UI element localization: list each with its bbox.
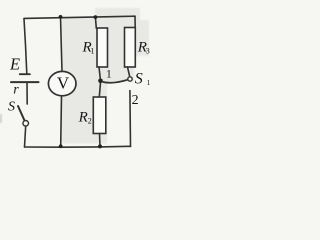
- svg-text:S: S: [135, 70, 143, 87]
- wire R1 top: [94, 17, 97, 28]
- wire battery to switch S: [26, 83, 28, 104]
- resistor R1 box: [97, 28, 108, 67]
- left edge smudge: [0, 114, 2, 123]
- svg-text:2: 2: [88, 117, 92, 126]
- voltmeter V circle: [48, 71, 76, 95]
- svg-text:2: 2: [132, 93, 139, 108]
- svg-text:r: r: [13, 83, 19, 98]
- switch S blade: [18, 106, 25, 121]
- svg-text:S: S: [8, 100, 15, 115]
- junction dot R1 top: [94, 15, 98, 19]
- junction dot voltmeter top: [59, 15, 63, 19]
- switch S1 pivot circle: [128, 77, 132, 81]
- battery E top plate: [20, 73, 30, 75]
- svg-text:R: R: [78, 110, 88, 126]
- switch S pivot circle: [23, 121, 29, 127]
- resistor R2 box: [93, 97, 106, 134]
- junction dot voltmeter bottom: [59, 144, 63, 148]
- wire R2 top: [99, 83, 100, 98]
- svg-text:3: 3: [146, 47, 150, 56]
- wire switch to bottom: [25, 126, 26, 147]
- wire left upper (to battery): [24, 19, 27, 74]
- junction dot R2 bottom: [98, 144, 102, 148]
- svg-text:E: E: [9, 55, 20, 74]
- svg-text:V: V: [57, 74, 70, 93]
- wire right (top corner to R3): [134, 16, 136, 27]
- svg-text:1: 1: [147, 78, 151, 87]
- wire top: [24, 16, 135, 18]
- wire voltmeter bottom: [60, 96, 63, 147]
- gray scan shading region: [61, 8, 149, 144]
- svg-text:1: 1: [91, 47, 95, 56]
- paper background: [0, 0, 157, 159]
- node 1 junction dot: [98, 79, 103, 84]
- wire bottom: [25, 145, 131, 148]
- svg-text:1: 1: [106, 69, 112, 81]
- wire R1 to node 1: [99, 67, 101, 81]
- wire R3 to S1: [128, 67, 130, 77]
- switch S1 blade: [103, 80, 128, 83]
- wire voltmeter top: [61, 17, 63, 72]
- battery E bottom plate: [11, 81, 39, 83]
- wire R2 bottom: [99, 134, 102, 147]
- resistor R3 box: [125, 28, 136, 68]
- wire terminal 2: [129, 91, 132, 147]
